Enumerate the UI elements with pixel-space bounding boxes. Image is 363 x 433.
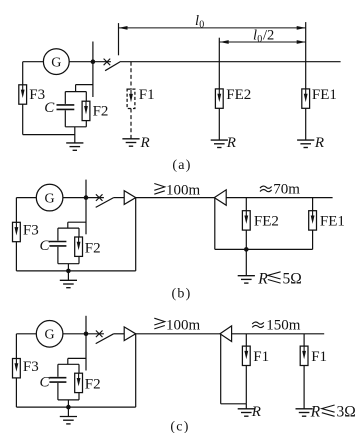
wire left branch down to F3 [22,62,24,85]
(c) arrester F2 [75,373,83,392]
(b) cable sheath down wire [214,198,216,250]
caption (b) [172,287,192,302]
wire F2 branch lower [85,121,87,127]
main overhead line [121,61,341,63]
wire junction down to breaker tap [92,62,94,97]
(c) arrester F1 left [242,346,250,365]
(c) label F2 [85,377,101,393]
(b) wire C-F2 block top [58,227,79,229]
arrester F2 [82,101,90,120]
caption (a) [172,158,191,173]
svg-text:R: R [226,135,236,151]
dimension line l0/2 [220,40,306,44]
label F1 [139,87,155,103]
wire F3 to bottom corner [22,104,24,134]
(c) arrester F1 right [300,346,308,365]
(b) wire FE2 lower lead [245,230,247,249]
(b) wire tap stub horizontal [68,221,86,223]
label R at F1 ground [140,135,150,151]
label FE2 [226,87,251,103]
svg-text:R: R [257,270,268,287]
svg-text:100m: 100m [166,317,201,333]
(b) arrester F2 [75,237,83,256]
(c) label F3 [23,359,39,375]
(c) wire C-F2 block top [58,363,79,365]
wire tap stub down to C-F2 block [75,85,77,92]
wire C-F2 block bottom [65,126,86,128]
label R at FE2 ground [226,135,236,151]
svg-text:G: G [45,191,55,206]
(c) label C [40,374,51,390]
(b) wire C branch lower [57,247,59,264]
svg-text:FE1: FE1 [312,87,337,103]
(c) wire left branch to F3 [15,334,17,359]
(b) capacitor C plates [49,242,66,246]
(b) label FE1 [320,214,345,230]
figure (a) generator G1 [43,49,69,75]
label l0/2 [253,28,274,45]
(b) switch closing mark x [96,194,103,201]
svg-text:150m: 150m [266,317,301,333]
svg-text:F2: F2 [93,104,109,120]
arrester F1 (dashed) [127,89,135,108]
extension line at switch [118,23,120,55]
(c) ground of F1 left [238,404,255,416]
wire C-F2 block top [65,91,86,93]
dashed wire to F1 [130,62,132,89]
(c) wire G left lead [16,333,36,335]
wire FE1 lead [305,62,307,89]
(b) wire left branch to F3 [15,198,17,223]
svg-text:R: R [251,404,261,420]
(b) switch blade [96,198,114,208]
(c) node on bottom rail [66,405,71,410]
(c) wire C branch upper [57,364,59,377]
svg-text:R: R [140,135,150,151]
(c) capacitor C plates [49,378,66,382]
svg-text:0: 0 [199,19,204,30]
(c) cable sheath bottom wire [221,403,247,405]
label F3 [29,87,45,103]
(c) ground of F1 right [296,409,313,416]
(c) arrester F3 [13,359,21,378]
dimension line l0 [119,26,306,30]
(c) wire F1 left lower lead [245,366,247,404]
(b) arrester FE1 [309,211,317,230]
svg-text:(c): (c) [170,420,189,433]
ground of C-F2 block [66,127,83,151]
svg-text:F2: F2 [85,377,101,393]
svg-text:F2: F2 [85,240,101,256]
svg-text:FE2: FE2 [254,214,279,230]
(b) node junction [84,195,89,200]
(b) wire FE1 lower lead [312,230,314,249]
wire tap stub horizontal [76,84,93,86]
(c) wire tap stub down [67,358,69,364]
wire F2 branch upper [85,92,87,102]
(c) wire F1 left lead [245,334,247,346]
(b) label >=100m [154,183,200,199]
svg-text:G: G [51,55,61,70]
(c) wire F1 right lead [303,334,305,346]
(c) overhead line 100m span [136,333,220,335]
wire G1 left lead [23,61,44,63]
svg-text:F3: F3 [23,359,39,375]
(b) wire F2 branch upper [78,228,80,237]
extension line FE2 upper [218,38,220,62]
ground of F1 [122,139,139,146]
ground of FE1 [297,140,314,147]
(c) wire G right lead [63,333,104,335]
svg-text:C: C [44,100,55,116]
(c) label >=100m [154,317,200,333]
label FE1 [312,87,337,103]
arrester F3 [19,85,27,104]
(c) node junction [84,332,89,337]
svg-text:(a): (a) [172,158,191,173]
(c) label F1 right [311,349,327,365]
(b) wire tap stub down [67,222,69,228]
label C [44,100,55,116]
(b) cable sheath bottom wire [215,248,313,250]
(c) wire junction down [85,334,87,371]
(b) label approx 70m [260,181,300,197]
wire stub above junction [92,42,94,62]
svg-text:F1: F1 [311,349,327,365]
label l0 [195,13,204,30]
(b) wire C-F2 block bottom [58,263,79,265]
figure (c) generator G [36,321,63,348]
svg-text:(b): (b) [172,287,192,302]
(c) wire F2 branch lower [78,393,80,400]
extension line FE1 upper [305,22,307,62]
(c) wire blade to cable end [114,333,125,335]
svg-text:FE2: FE2 [226,87,251,103]
dashed wire F1 to ground [130,109,132,139]
(c) switch closing mark x [96,331,103,338]
(c) wire bottom rail [16,406,135,408]
svg-text:R: R [314,135,324,151]
(b) node on bottom rail [66,269,71,274]
switch closing mark x [104,59,111,66]
svg-text:3Ω: 3Ω [337,404,356,421]
svg-text:0: 0 [257,34,262,45]
(b) arrester FE2 [242,211,250,230]
(b) label F3 [23,223,39,239]
(c) wire F1 right lower lead [303,366,305,409]
(b) wire C branch upper [57,228,59,241]
label R at FE1 ground [314,135,324,151]
capacitor C plates [57,105,75,110]
node junction on bus [91,59,96,64]
svg-text:/2: /2 [263,28,274,44]
(c) wire stub above junction [85,316,87,334]
(b) wire stub above junction [85,180,87,198]
(c) wire C branch lower [57,383,59,400]
(b) wire G left lead [16,197,36,199]
(c) line to poles [232,333,325,335]
figure (b) generator G [36,184,63,211]
(c) label R at F1 left [251,404,261,420]
(b) wire FE1 lead [312,198,314,211]
svg-text:F3: F3 [29,87,45,103]
(b) wire F3 down to bottom [15,242,17,271]
svg-text:C: C [40,374,51,390]
arrester FE2 [215,89,223,108]
(b) label C [40,238,51,254]
(c) cable end triangle left [124,327,136,341]
wire C branch upper [64,92,66,104]
(c) label R<=3ohm [310,404,356,421]
(b) wire junction down [85,198,87,235]
(b) ground of FE2 [238,249,255,283]
(b) overhead line 100m span [136,197,215,199]
label F2 [93,104,109,120]
(c) wire C-F2 block bottom [58,399,79,401]
(c) label F1 left [253,349,269,365]
wire FE1 to ground [305,108,307,140]
(b) label F2 [85,240,101,256]
(c) wire tap stub horizontal [68,357,86,359]
(c) label approx 150m [252,317,301,333]
svg-text:5Ω: 5Ω [283,270,302,287]
(b) wire block stem to rail [67,264,69,271]
caption (c) [170,420,189,433]
svg-text:FE1: FE1 [320,214,345,230]
(c) wire block stem to rail [67,400,69,407]
(b) wire bottom rail [16,270,135,272]
wire bottom left to ground node [23,134,75,136]
(c) wire F3 down to bottom [15,378,17,407]
(b) wire right side up to line [135,198,137,271]
(b) wire FE2 lead [245,198,247,211]
arrester FE1 [302,89,310,108]
(c) ground of bottom rail [60,407,77,424]
ground of FE2 [211,140,228,147]
(b) line to substation [226,197,332,199]
(c) wire F2 branch upper [78,364,80,373]
svg-text:R: R [310,404,321,421]
(b) ground of bottom rail [60,271,77,288]
(c) cable sheath down wire [220,334,222,404]
(b) arrester F3 [13,222,21,241]
(b) wire F2 branch lower [78,256,80,263]
(b) cable end triangle left [124,191,136,205]
svg-text:G: G [45,328,55,343]
(b) node FE2 sheath junction [244,247,249,252]
svg-text:100m: 100m [166,183,201,199]
wire FE2 lead [218,62,220,89]
wire G1 right lead to switch [69,61,111,63]
svg-text:F1: F1 [253,349,269,365]
(c) cable end triangle right [220,326,232,342]
(c) wire right side up to line [135,334,137,407]
svg-text:C: C [40,238,51,254]
(b) wire G right lead [63,197,104,199]
svg-text:F3: F3 [23,223,39,239]
(b) wire blade to cable end [114,197,125,199]
wire C branch lower [64,110,66,127]
svg-text:70m: 70m [273,181,300,197]
switch blade [105,61,121,70]
(b) label R<=5ohm [257,270,302,287]
(b) label FE2 [254,214,279,230]
(b) cable end triangle right [214,190,226,206]
svg-text:F1: F1 [139,87,155,103]
(c) switch blade [96,334,114,344]
wire FE2 to ground [218,108,220,140]
